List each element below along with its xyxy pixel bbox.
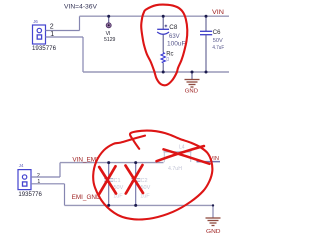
svg-text:4.7uH: 4.7uH	[168, 166, 182, 172]
capacitor C8 (electrolytic)	[157, 16, 169, 52]
wire riser to GND rail	[82, 37, 84, 72]
svg-text:GND: GND	[185, 88, 198, 94]
svg-text:C8: C8	[169, 24, 178, 31]
inductor L4 (deleted, greyed)	[164, 152, 192, 162]
via VI	[106, 16, 112, 37]
svg-text:100uF: 100uF	[167, 41, 186, 48]
svg-text:J6: J6	[33, 19, 38, 24]
svg-text:VIN: VIN	[212, 9, 224, 16]
svg-text:1uF: 1uF	[113, 194, 123, 200]
svg-text:J4: J4	[19, 163, 24, 168]
capacitor C6	[200, 16, 212, 72]
wire riser to VIN_EMI rail	[59, 163, 61, 177]
wire VIN_EMI rail right of L4	[197, 161, 221, 163]
junction C6 on GND rail	[205, 71, 208, 74]
svg-text:C1: C1	[114, 178, 121, 184]
wire J6 pin1 to riser	[46, 36, 84, 38]
annotation red loop around EMI filter	[93, 131, 212, 220]
svg-text:2: 2	[50, 24, 54, 31]
svg-text:63V: 63V	[169, 34, 180, 40]
junction C8 on VIN rail	[162, 15, 165, 18]
junction C1 top	[107, 161, 110, 164]
wire VIN top rail	[80, 15, 230, 17]
svg-text:50V: 50V	[213, 38, 223, 44]
svg-text:1935776: 1935776	[32, 46, 57, 52]
junction Rc on GND rail	[162, 71, 165, 74]
svg-text:1uF: 1uF	[140, 194, 150, 200]
svg-text:VIN=4-36V: VIN=4-36V	[64, 4, 98, 11]
wire VIN_EMI rail	[60, 162, 164, 164]
junction C2 bottom	[134, 204, 137, 207]
wire J6 pin2 to riser	[46, 30, 80, 32]
svg-text:5129: 5129	[104, 37, 115, 43]
annotation red X over C2	[126, 165, 144, 194]
annotation red X over L4	[157, 146, 210, 164]
junction GND on rail	[191, 71, 194, 74]
svg-text:VIN_EMI: VIN_EMI	[72, 157, 98, 164]
wire riser to EMI_GND rail	[64, 184, 66, 206]
capacitor C1 (deleted, greyed)	[104, 163, 113, 206]
svg-text:L4: L4	[179, 145, 185, 151]
connector J4	[18, 163, 31, 190]
annotation red X over C1	[99, 166, 116, 194]
wire GND bottom rail	[83, 71, 229, 73]
wire EMI_GND rail	[65, 204, 214, 206]
wire J4 pin2 to riser	[31, 176, 60, 178]
svg-text:C2: C2	[141, 178, 148, 184]
svg-text:2: 2	[37, 173, 40, 179]
ground GND (top circuit)	[185, 72, 200, 87]
junction C1 bottom	[107, 204, 110, 207]
svg-text:EMI_GND: EMI_GND	[72, 194, 102, 201]
svg-text:0: 0	[166, 57, 169, 63]
wire J4 pin1 to riser	[31, 183, 65, 185]
capacitor C2 (deleted, greyed)	[131, 163, 140, 206]
connector J6	[33, 19, 46, 44]
wire riser to VIN rail	[79, 16, 81, 30]
svg-text:C6: C6	[213, 30, 221, 36]
junction C6 on VIN rail	[205, 15, 208, 18]
svg-text:4.7uF: 4.7uF	[212, 45, 224, 51]
junction corner EMI_GND rail	[212, 204, 214, 206]
junction at via on VIN rail	[107, 15, 110, 18]
resistor Rc	[161, 53, 165, 73]
svg-text:GND: GND	[206, 229, 221, 235]
ground GND (bottom circuit)	[206, 205, 221, 225]
annotation red loop around C8 and Rc	[141, 5, 187, 86]
junction C2 top	[134, 161, 137, 164]
svg-text:1935776: 1935776	[18, 192, 42, 198]
